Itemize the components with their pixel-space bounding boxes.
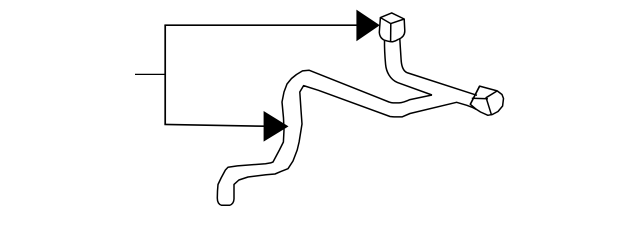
hose band outline: [217, 70, 476, 205]
arrow 2: [264, 111, 289, 142]
right connector inner face edge: [486, 91, 497, 115]
bracket bottom horizontal: [164, 124, 264, 126]
bracket top horizontal: [164, 24, 357, 26]
right connector body: [470, 86, 503, 115]
cube connector right face: [399, 19, 405, 39]
cube connector bottom edge: [385, 39, 399, 41]
cube connector top face: [380, 13, 404, 24]
cube connector front edge: [390, 24, 392, 42]
arrow 1: [356, 10, 379, 42]
right connector mouth line: [472, 97, 488, 99]
tube from cube, right outline: [400, 39, 477, 96]
right connector left edge: [470, 86, 479, 104]
bracket vertical: [164, 25, 166, 124]
leader stub: [135, 73, 165, 75]
tube from cube, left outline: [384, 40, 432, 95]
cube connector left face: [379, 18, 384, 41]
